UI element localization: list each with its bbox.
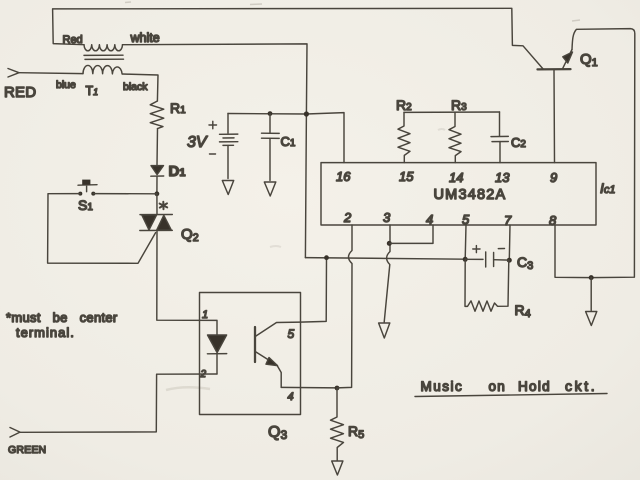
resistor R4 with loop wires	[465, 259, 509, 311]
wire IC pin 7 to C3 right node	[508, 225, 511, 260]
svg-text:1: 1	[202, 309, 208, 321]
label R5	[348, 423, 364, 441]
asterisk mark at Q2	[160, 202, 168, 209]
svg-text:Music: Music	[421, 379, 464, 394]
svg-text:15: 15	[399, 169, 414, 184]
svg-text:on: on	[489, 379, 506, 394]
svg-text:3: 3	[383, 210, 391, 225]
svg-text:blue: blue	[56, 79, 76, 91]
node dot pin3/pin4	[387, 241, 392, 246]
IC1 package box UM3482A	[321, 163, 596, 225]
label GREEN	[8, 444, 46, 456]
label Q3	[268, 424, 287, 442]
wire R1 to D1	[156, 129, 159, 166]
wire IC pin 8 down to ground node	[555, 225, 591, 278]
IC pin 13 number	[495, 170, 510, 185]
node dot C3 left	[463, 257, 468, 262]
node dot white wire junction	[304, 111, 309, 116]
label Ic1	[600, 180, 616, 196]
label RED	[4, 84, 36, 101]
wire lower net y257 from white wire to C3	[305, 258, 465, 260]
triac Q2	[140, 215, 173, 231]
label T1	[86, 84, 99, 98]
svg-text:5: 5	[288, 327, 295, 341]
label blue	[56, 79, 76, 91]
svg-text:UM3482A: UM3482A	[434, 187, 507, 203]
svg-text:4: 4	[426, 212, 433, 227]
ground below battery	[222, 181, 233, 195]
node A junction dot	[155, 191, 160, 196]
svg-text:GREEN: GREEN	[8, 444, 46, 456]
transformer T1 secondary winding (blue-black)	[83, 65, 122, 74]
Q3 phototransistor	[255, 322, 300, 387]
IC pin 2 number	[343, 210, 352, 225]
ground right	[586, 312, 597, 326]
wire D1 to node A	[156, 176, 158, 194]
svg-text:*must be center: *must be center	[6, 310, 118, 325]
resistor R1	[150, 101, 164, 129]
svg-text:Hold: Hold	[518, 379, 551, 394]
svg-text:16: 16	[336, 169, 351, 184]
battery minus sign	[210, 153, 216, 155]
wire IC pin 5 to net node	[464, 225, 467, 259]
label C3	[517, 254, 533, 272]
wire supply rail battery to IC pin 16	[228, 113, 344, 163]
label Q1	[580, 51, 598, 69]
node R5 junction dot	[335, 386, 340, 391]
note must be center terminal	[6, 310, 118, 340]
label 3V	[187, 134, 208, 151]
wire Q3 pin 2 to GREEN terminal	[20, 374, 217, 432]
wire T1 black lead to R1	[122, 74, 158, 101]
wire Q3 pin 5 up to net node	[300, 258, 326, 322]
svg-text:3V: 3V	[187, 134, 208, 151]
label R2	[396, 97, 412, 113]
IC pin 7 number	[504, 213, 512, 228]
svg-text:RED: RED	[4, 84, 36, 101]
wire R2 R3 C2 top rail	[404, 111, 500, 113]
wire node A to triac Q2	[156, 194, 158, 215]
Q3 pin 5 number	[288, 327, 295, 341]
svg-text:white: white	[130, 31, 160, 45]
IC pin 16 number	[336, 169, 351, 184]
wire Q2 down to Q3 pin 1	[157, 231, 217, 335]
ground below C1	[264, 182, 276, 196]
label Red (winding)	[63, 34, 83, 46]
label Q2	[181, 226, 199, 244]
IC pin 4 number	[426, 212, 433, 227]
terminal RED arrow	[8, 69, 19, 78]
ground below pin 3 wire	[379, 323, 390, 338]
label R4	[515, 302, 531, 320]
terminal GREEN arrow	[10, 428, 20, 438]
wire RED input to T1 blue lead	[19, 72, 83, 75]
faint scanner smudges	[125, 2, 580, 390]
capacitor C2	[491, 112, 508, 163]
ground below R5	[332, 461, 343, 475]
label R1	[170, 100, 186, 116]
switch S1	[78, 180, 97, 196]
label C1	[281, 134, 296, 149]
IC pin 5 number	[462, 212, 470, 227]
wire T1 white lead right then down to supply node and lower net	[123, 44, 308, 258]
battery 3V	[220, 114, 238, 179]
IC pin 8 number	[549, 213, 557, 228]
svg-text:8: 8	[549, 213, 557, 228]
svg-text:14: 14	[449, 170, 463, 185]
svg-text:black: black	[123, 81, 148, 93]
IC pin 15 number	[399, 169, 414, 184]
label R3	[451, 97, 467, 113]
resistor R3	[449, 112, 461, 162]
label D1	[169, 163, 186, 180]
svg-text:9: 9	[550, 170, 557, 185]
C3 plus sign	[473, 246, 480, 253]
wire T1 red lead up to top rail across to Q1 collector	[53, 8, 543, 69]
node dot C3 right	[507, 258, 512, 263]
node dot ground right	[589, 275, 594, 280]
svg-text:4: 4	[288, 391, 294, 403]
label C2	[511, 135, 526, 150]
IC pin 3 number	[383, 210, 391, 225]
svg-text:Red: Red	[63, 34, 83, 46]
svg-text:13: 13	[495, 170, 510, 185]
IC pin 14 number	[449, 170, 463, 185]
transformer T1 core lines	[84, 55, 124, 59]
label white (winding)	[130, 31, 160, 45]
title Music on Hold ckt	[415, 378, 607, 397]
IC pin 9 number	[550, 170, 557, 185]
capacitor C3	[465, 252, 509, 267]
C3 minus sign	[498, 248, 504, 250]
transistor Q1	[538, 50, 573, 163]
wire S1 to node A	[93, 193, 157, 195]
svg-text:2: 2	[343, 210, 352, 225]
wire Q3 pin 4 to R5 node	[281, 386, 337, 389]
svg-text:terminal.: terminal.	[16, 325, 75, 340]
capacitor C1	[262, 114, 280, 181]
battery plus sign	[209, 121, 217, 129]
node dot C1 top	[268, 111, 273, 116]
node net dot at x326	[324, 255, 329, 260]
Q3 pin 4 number	[288, 391, 294, 403]
Q3 LED	[207, 335, 226, 374]
IC part number text UM3482A	[434, 187, 507, 203]
wire IC pin 3 down to ground (with hop)	[384, 225, 390, 322]
wire IC pin 2 down to R5 node (with hop)	[337, 225, 352, 388]
Q3 pin 2 number	[200, 369, 207, 380]
optocoupler Q3 package box	[200, 293, 301, 415]
resistor R5	[331, 388, 344, 461]
wire IC pin 4 to pin 3 node	[389, 225, 433, 243]
resistor R2	[398, 112, 410, 162]
wire S1 left down and to Q2 gate	[48, 194, 156, 264]
Q3 pin 1 number	[202, 309, 208, 321]
svg-text:T1: T1	[86, 84, 99, 98]
label S1	[78, 197, 93, 213]
label black	[123, 81, 148, 93]
svg-text:7: 7	[504, 213, 512, 228]
svg-text:ckt.: ckt.	[565, 378, 597, 394]
transformer T1 primary winding (red-white)	[84, 45, 122, 51]
diode D1	[151, 166, 164, 177]
wire Q1 emitter to right rail down to ground node	[572, 29, 635, 278]
wire node to right ground	[590, 278, 592, 311]
